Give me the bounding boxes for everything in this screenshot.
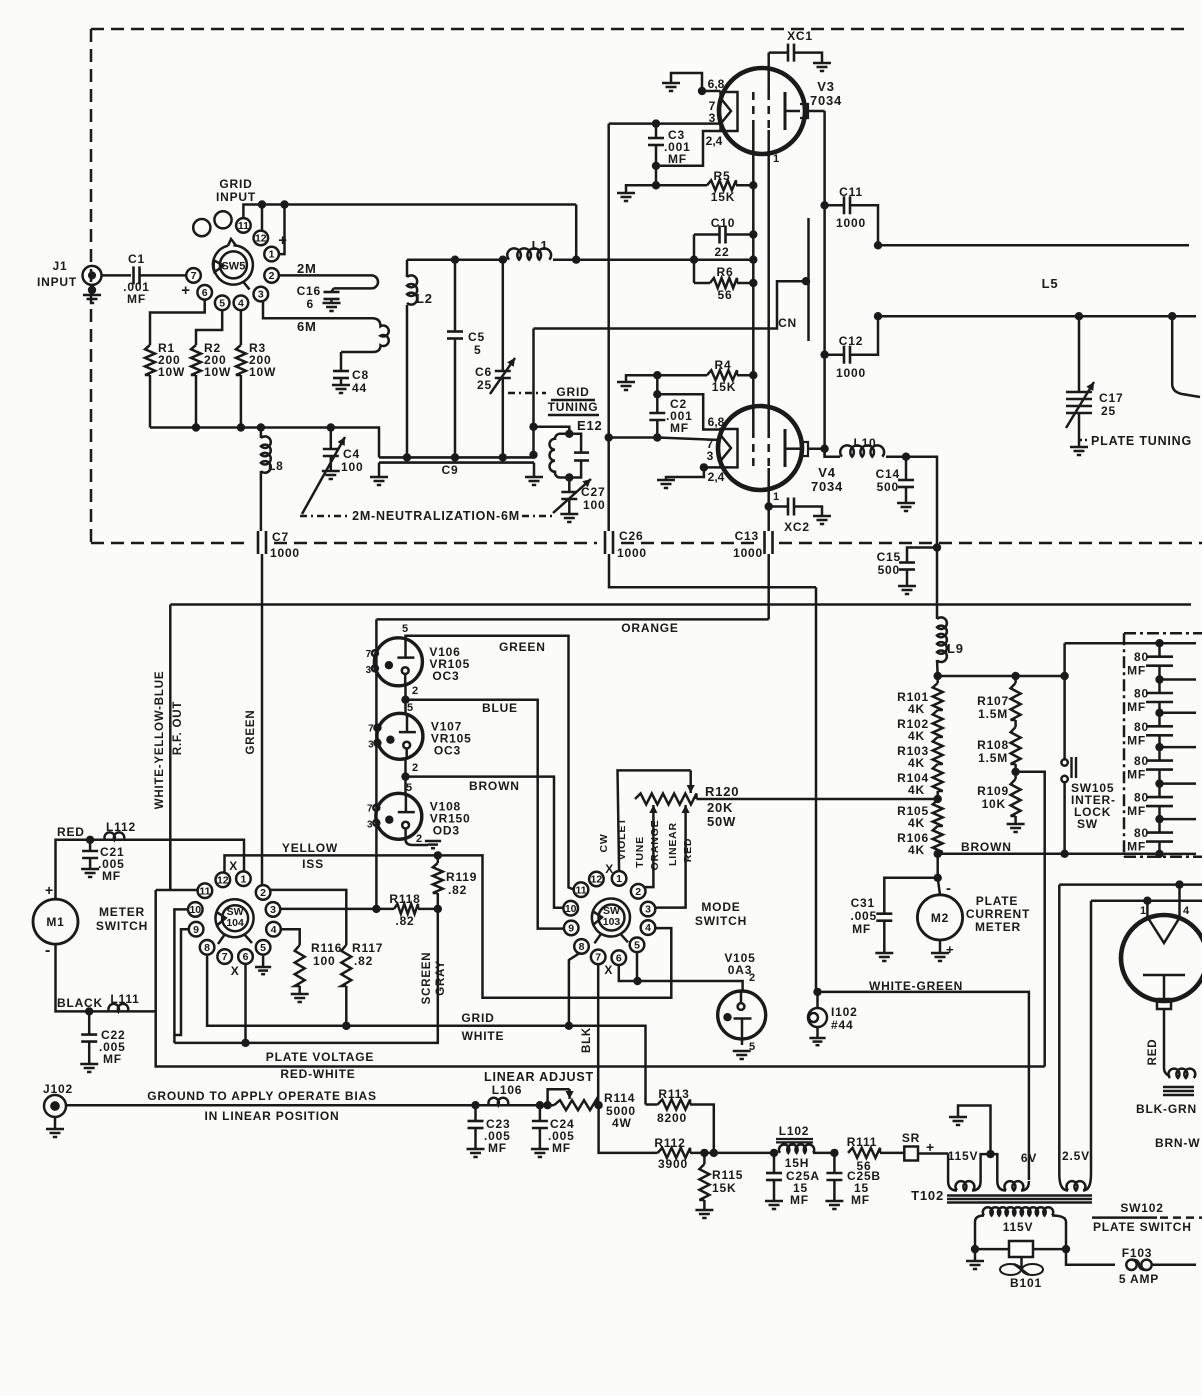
- blower B101: [975, 1248, 1009, 1251]
- wire SW104 pin4 to R116: [280, 929, 299, 945]
- svg-text:5: 5: [402, 623, 408, 635]
- screen bus XC1 to V4: [767, 53, 770, 92]
- wire SCREEN GRAY: [174, 909, 437, 1043]
- wire bottom bus to C9: [150, 428, 379, 458]
- svg-text:SW5: SW5: [221, 260, 245, 272]
- filter capacitor 80 MF #2: [1158, 680, 1161, 694]
- svg-text:GROUND TO APPLY OPERATE BIAS: GROUND TO APPLY OPERATE BIAS: [147, 1089, 377, 1103]
- capacitor C31 .005 MF: [934, 874, 942, 882]
- ground at J1: [88, 286, 96, 294]
- capacitor C9 (split-stator): [379, 456, 534, 459]
- svg-text:MF: MF: [102, 869, 121, 883]
- svg-text:1: 1: [269, 249, 275, 261]
- svg-text:4K: 4K: [908, 816, 925, 830]
- wire L10 to lower section: [906, 457, 937, 619]
- svg-text:BRN-W: BRN-W: [1155, 1136, 1200, 1150]
- rotary switch SW104: [222, 905, 248, 931]
- svg-text:VIOLET: VIOLET: [616, 818, 628, 861]
- svg-text:.82: .82: [448, 883, 467, 897]
- svg-text:X: X: [604, 963, 613, 977]
- resistor R4 15K: [653, 371, 661, 379]
- V4 screen grid (dashed): [767, 430, 770, 468]
- svg-text:WHITE: WHITE: [462, 1029, 505, 1043]
- tube V105 0A3: [718, 991, 766, 1039]
- svg-text:4K: 4K: [908, 702, 925, 716]
- wire SW104 pin11 stub: [156, 889, 199, 892]
- svg-text:X: X: [231, 964, 240, 978]
- SW103 pin 1: [612, 871, 627, 886]
- variable capacitor C27 100: [568, 478, 571, 493]
- svg-text:GREEN: GREEN: [245, 710, 257, 755]
- wire SW103 pins 5,6 to V105: [619, 965, 743, 992]
- svg-text:L9: L9: [947, 641, 964, 656]
- capacitor C15 500: [907, 548, 937, 563]
- neutralizing capacitor CN: [807, 218, 810, 341]
- variable capacitor C4 100: [330, 428, 333, 450]
- SW103 pin 10: [563, 901, 578, 916]
- svg-text:4: 4: [1183, 905, 1190, 917]
- SW103 pin 4: [641, 920, 656, 935]
- transformer T102 primary 115V: [947, 1154, 950, 1182]
- svg-text:ISS: ISS: [302, 857, 324, 871]
- inductor L5 lower line: [878, 315, 1196, 318]
- svg-text:PLATE: PLATE: [976, 894, 1018, 908]
- wire filament line pin 4: [1059, 883, 1202, 886]
- svg-text:V3: V3: [817, 79, 835, 94]
- svg-text:3: 3: [366, 665, 372, 676]
- svg-text:2M-NEUTRALIZATION-6M: 2M-NEUTRALIZATION-6M: [352, 509, 520, 523]
- svg-text:R5: R5: [714, 169, 731, 183]
- svg-text:GRID: GRID: [556, 385, 589, 399]
- wire V106 pin5 GREEN: [406, 636, 575, 890]
- svg-text:2M: 2M: [297, 261, 317, 276]
- svg-text:2: 2: [412, 685, 418, 697]
- svg-text:3: 3: [707, 449, 714, 463]
- svg-text:4K: 4K: [908, 729, 925, 743]
- svg-text:5: 5: [634, 939, 640, 951]
- svg-text:MODE: MODE: [701, 900, 740, 914]
- V3 screen grid (dashed): [767, 92, 770, 130]
- transformer 6V winding: [991, 1154, 998, 1181]
- meter M2 PLATE CURRENT METER: [938, 878, 940, 895]
- svg-text:X: X: [605, 862, 614, 876]
- svg-text:GRID: GRID: [461, 1011, 494, 1025]
- svg-text:V4: V4: [818, 465, 836, 480]
- svg-text:PLATE TUNING: PLATE TUNING: [1091, 434, 1192, 448]
- svg-text:22: 22: [715, 245, 730, 259]
- svg-text:3: 3: [367, 819, 373, 830]
- svg-text:2.5V: 2.5V: [1062, 1149, 1090, 1163]
- svg-text:20K: 20K: [707, 800, 733, 815]
- svg-text:R113: R113: [658, 1087, 689, 1101]
- svg-text:TUNING: TUNING: [548, 400, 599, 414]
- SW104 pin 1: [236, 871, 251, 886]
- svg-text:12: 12: [591, 874, 603, 886]
- wire C1 to SW5 pin7: [140, 274, 187, 277]
- svg-text:100: 100: [583, 498, 605, 512]
- svg-text:C14: C14: [876, 467, 900, 481]
- svg-text:+: +: [45, 882, 54, 898]
- svg-text:MF: MF: [852, 922, 871, 936]
- svg-text:+: +: [278, 232, 288, 249]
- svg-text:1000: 1000: [836, 216, 866, 230]
- svg-text:7: 7: [366, 649, 372, 660]
- V3 grid bus down: [752, 128, 755, 430]
- svg-text:MF: MF: [1127, 733, 1146, 747]
- blower ground: [971, 1245, 979, 1253]
- wire SW104 pin10 down: [174, 909, 188, 1043]
- screen bus to XC2 and C13: [767, 468, 770, 531]
- capacitor C5 5: [454, 260, 457, 332]
- svg-text:M2: M2: [931, 911, 949, 925]
- svg-text:6: 6: [243, 951, 249, 963]
- svg-text:F103: F103: [1122, 1246, 1153, 1260]
- svg-text:MF: MF: [1127, 664, 1146, 678]
- plate bus V3-V4: [823, 111, 826, 457]
- resistor R109 10K: [1011, 779, 1021, 816]
- enclosure dashed border top: [91, 28, 1190, 31]
- capacitor C21 .005 MF: [89, 840, 92, 851]
- wire BLUE: [406, 700, 565, 929]
- wire SW5 pin 1 up: [279, 205, 285, 255]
- svg-text:C4: C4: [343, 447, 360, 461]
- connector J1 INPUT: [83, 266, 102, 285]
- resistor R3 200 10W: [236, 345, 246, 375]
- svg-text:104: 104: [226, 917, 244, 929]
- R4 ground: [626, 375, 657, 381]
- wire BROWN: [938, 853, 1160, 856]
- svg-text:PLATE SWITCH: PLATE SWITCH: [1093, 1220, 1192, 1234]
- SW103 pin 6: [612, 950, 627, 965]
- svg-text:7034: 7034: [810, 93, 842, 108]
- filter capacitor 80 MF #6: [1158, 819, 1161, 833]
- svg-text:2,4: 2,4: [706, 134, 723, 148]
- svg-text:SWITCH: SWITCH: [695, 914, 747, 928]
- svg-text:44: 44: [352, 381, 367, 395]
- capacitor C10 22: [726, 233, 753, 236]
- wire SW105 to capacitor bank: [1065, 642, 1159, 645]
- resistor R5 15K: [656, 184, 707, 187]
- C6 arrow: [490, 358, 515, 394]
- svg-text:15H: 15H: [785, 1156, 809, 1170]
- svg-text:C31: C31: [851, 896, 875, 910]
- inductor L1: [503, 258, 507, 261]
- SW5 pin 5: [215, 296, 230, 311]
- svg-text:1000: 1000: [836, 366, 866, 380]
- transformer T102 core: [947, 1194, 1092, 1196]
- SW104 pin 11: [198, 883, 213, 898]
- SW103 pin 11: [574, 882, 589, 897]
- svg-text:6: 6: [307, 297, 314, 311]
- SW5 unused contacts: [214, 211, 231, 228]
- coil 6M: [341, 318, 389, 352]
- svg-text:C9: C9: [442, 463, 459, 477]
- variable capacitor C6 25: [502, 260, 505, 371]
- svg-text:15K: 15K: [712, 380, 736, 394]
- svg-text:L112: L112: [106, 820, 136, 834]
- SW104 pin 9: [189, 922, 204, 937]
- fuse F103 5 AMP: [1066, 1249, 1115, 1265]
- feedthrough capacitor C13 1000: [763, 531, 766, 554]
- R120 tap LINEAR RED to SW103 pin3: [684, 805, 687, 900]
- svg-text:1.5M: 1.5M: [978, 751, 1008, 765]
- svg-text:R115: R115: [712, 1168, 743, 1182]
- transformer 2.5V winding: [1058, 885, 1061, 1174]
- svg-text:1: 1: [773, 491, 779, 503]
- blower winding 115V: [975, 1216, 984, 1223]
- SW5 pin 4: [234, 296, 249, 311]
- svg-text:2: 2: [749, 972, 755, 984]
- wire PLATE VOLTAGE RED-WHITE: [156, 890, 1045, 1067]
- resistor R118 .82: [281, 908, 395, 911]
- svg-text:6: 6: [202, 287, 208, 299]
- resistor R115 15K: [703, 1153, 706, 1164]
- wire SW5 pin 6 to R1: [150, 299, 205, 345]
- R120 wiper CW VIOLET to SW103 pin1: [618, 770, 691, 871]
- resistor R6 56: [694, 282, 710, 285]
- svg-text:2,4: 2,4: [708, 470, 725, 484]
- svg-text:7034: 7034: [811, 479, 843, 494]
- svg-text:GRAY: GRAY: [435, 960, 447, 995]
- svg-text:METER: METER: [99, 905, 145, 919]
- wire GRID WHITE: [207, 954, 645, 1104]
- svg-text:BLK-GRN: BLK-GRN: [1136, 1102, 1197, 1116]
- svg-text:C27: C27: [581, 485, 605, 499]
- svg-text:115V: 115V: [1003, 1220, 1034, 1234]
- wire filament line pin 1: [1091, 899, 1202, 902]
- svg-text:7: 7: [367, 803, 373, 814]
- svg-text:L102: L102: [779, 1124, 810, 1138]
- inductor L5 upper line: [878, 244, 1189, 247]
- svg-text:#44: #44: [831, 1018, 853, 1032]
- svg-text:CN: CN: [778, 316, 797, 330]
- V3 plate: [784, 92, 787, 130]
- inductor L9: [937, 617, 947, 662]
- wire WHITE-YELLOW-BLUE R.F.OUT bus: [170, 603, 1191, 606]
- svg-text:1000: 1000: [617, 546, 647, 560]
- C27 arrow: [553, 479, 591, 513]
- capacitor XC2: [769, 505, 788, 508]
- cathode bus down: [607, 124, 610, 531]
- svg-text:+: +: [181, 282, 191, 299]
- svg-text:R117: R117: [352, 941, 383, 955]
- svg-text:WHITE-YELLOW-BLUE: WHITE-YELLOW-BLUE: [154, 671, 166, 810]
- meter M1: [33, 899, 78, 944]
- svg-text:R111: R111: [847, 1135, 878, 1149]
- resistor R112 3900: [658, 1148, 691, 1158]
- svg-text:C5: C5: [468, 330, 485, 344]
- rotary switch SW103 MODE SWITCH: [599, 905, 625, 931]
- svg-text:OC3: OC3: [432, 669, 459, 683]
- tube V3 7034: [719, 68, 805, 154]
- SW104 pin 3: [266, 902, 281, 917]
- svg-text:.82: .82: [354, 954, 373, 968]
- SW104 pin 4: [266, 922, 281, 937]
- svg-text:L5: L5: [1042, 276, 1059, 291]
- svg-text:RED: RED: [57, 825, 85, 839]
- primary ground: [958, 1106, 991, 1155]
- svg-text:L8: L8: [268, 459, 284, 473]
- svg-text:4: 4: [238, 297, 244, 309]
- svg-text:.82: .82: [395, 914, 414, 928]
- svg-text:METER: METER: [975, 920, 1021, 934]
- svg-text:R120: R120: [705, 784, 739, 799]
- svg-text:1: 1: [616, 873, 622, 885]
- svg-text:2: 2: [635, 886, 641, 898]
- svg-text:4: 4: [645, 922, 651, 934]
- svg-text:B101: B101: [1010, 1276, 1042, 1290]
- capacitor bank node stubs: [1160, 642, 1197, 645]
- resistor R119 .82: [437, 855, 440, 863]
- wire YELLOW ISS: [225, 855, 672, 997]
- svg-text:INPUT: INPUT: [37, 275, 77, 289]
- svg-text:1000: 1000: [270, 546, 300, 560]
- svg-text:3: 3: [258, 289, 264, 301]
- svg-text:6,8: 6,8: [708, 77, 725, 91]
- svg-text:500: 500: [877, 480, 899, 494]
- svg-text:12: 12: [255, 233, 267, 245]
- C17 arrow: [1066, 382, 1094, 428]
- svg-text:4K: 4K: [908, 756, 925, 770]
- SW5 pin 7: [186, 268, 201, 283]
- svg-text:12: 12: [217, 874, 229, 886]
- svg-text:9: 9: [568, 923, 574, 935]
- svg-text:SWITCH: SWITCH: [96, 919, 148, 933]
- svg-text:IN LINEAR POSITION: IN LINEAR POSITION: [204, 1109, 339, 1123]
- tube V108 VR150 OD3: [376, 793, 422, 839]
- SW103 pin 8: [574, 939, 589, 954]
- resistor R1 200 10W: [145, 345, 155, 375]
- svg-text:R107: R107: [977, 694, 1009, 708]
- R120 tap TUNE ORANGE to SW103 pin2: [652, 805, 655, 880]
- SW104 pin5 ground: [262, 954, 265, 966]
- SW103 pin 7: [591, 950, 606, 965]
- capacitor C24 .005 MF: [536, 1101, 544, 1109]
- svg-text:R119: R119: [446, 870, 477, 884]
- wire ORANGE: [376, 618, 768, 621]
- svg-text:50W: 50W: [707, 814, 736, 829]
- svg-text:LINEAR ADJUST: LINEAR ADJUST: [484, 1070, 594, 1084]
- svg-text:.005: .005: [850, 909, 877, 923]
- svg-text:80: 80: [1134, 650, 1149, 664]
- capacitor C25A 15 MF: [770, 1149, 778, 1157]
- resistors R101-R106 4K chain: [936, 676, 939, 683]
- resistor R108 1.5M: [1011, 727, 1021, 764]
- bus x=816 down to I102: [815, 587, 818, 992]
- svg-text:M1: M1: [46, 915, 64, 929]
- rheostat R114 5000 4W: [554, 1100, 596, 1110]
- svg-text:L106: L106: [492, 1083, 523, 1097]
- wire SW104 pin2 to R117: [270, 890, 346, 945]
- svg-text:XC2: XC2: [784, 520, 810, 534]
- svg-text:2: 2: [416, 833, 422, 845]
- svg-text:R6: R6: [717, 265, 734, 279]
- capacitor C16 6: [332, 288, 334, 292]
- resistor R111 56: [848, 1148, 880, 1158]
- SW104 pin 5: [256, 940, 271, 955]
- svg-text:15K: 15K: [711, 190, 735, 204]
- svg-text:R118: R118: [389, 892, 420, 906]
- inductor L111: [108, 1004, 128, 1011]
- wire RED from M1: [56, 840, 245, 899]
- tube V106 VR105 OC3: [374, 638, 422, 686]
- svg-text:OD3: OD3: [433, 823, 460, 837]
- svg-text:R112: R112: [654, 1136, 685, 1150]
- svg-text:E12: E12: [577, 418, 603, 433]
- svg-text:5: 5: [407, 702, 413, 714]
- svg-text:I102: I102: [831, 1005, 858, 1019]
- svg-text:4: 4: [271, 924, 277, 936]
- svg-text:MF: MF: [127, 292, 146, 306]
- SW5 pin 1: [264, 247, 279, 262]
- svg-text:5 AMP: 5 AMP: [1119, 1272, 1159, 1286]
- capacitor C3 .001 MF: [655, 124, 658, 138]
- filter capacitor 80 MF #4: [1158, 747, 1161, 761]
- SW5 pin 6: [197, 285, 212, 300]
- svg-text:1000: 1000: [733, 546, 763, 560]
- svg-text:115V: 115V: [948, 1149, 979, 1163]
- svg-text:C8: C8: [352, 368, 369, 382]
- svg-text:SW102: SW102: [1120, 1201, 1163, 1215]
- svg-text:INPUT: INPUT: [216, 190, 256, 204]
- filament transformer winding: [1164, 1068, 1170, 1076]
- feedthrough capacitor C7 1000: [257, 531, 260, 554]
- resistor R2 200 10W: [191, 345, 201, 375]
- SW103 pin 2: [631, 884, 646, 899]
- svg-text:CW: CW: [598, 833, 610, 852]
- svg-text:C17: C17: [1099, 391, 1123, 405]
- svg-text:C10: C10: [711, 216, 735, 230]
- svg-text:4K: 4K: [908, 843, 925, 857]
- SW104 pin 7: [217, 949, 232, 964]
- svg-text:100: 100: [313, 954, 335, 968]
- svg-text:MF: MF: [488, 1141, 507, 1155]
- V4 plate: [784, 429, 787, 467]
- connector J102: [44, 1095, 66, 1117]
- svg-text:5: 5: [474, 343, 481, 357]
- V3 cathode: [721, 92, 738, 131]
- svg-text:10W: 10W: [249, 365, 276, 379]
- svg-text:1: 1: [240, 873, 246, 885]
- svg-text:7: 7: [368, 723, 374, 734]
- svg-text:C6: C6: [475, 365, 492, 379]
- capacitor bank dash-dot box: [1124, 632, 1202, 635]
- V3 grid 1 (dashed): [752, 92, 755, 128]
- svg-text:MF: MF: [103, 1052, 122, 1066]
- wire GROUND TO APPLY OPERATE BIAS: [66, 1104, 554, 1107]
- svg-text:MF: MF: [1127, 700, 1146, 714]
- svg-text:7: 7: [595, 952, 601, 964]
- svg-text:10W: 10W: [204, 365, 231, 379]
- wire L5 to right edge: [1172, 316, 1200, 397]
- capacitor C8 44: [340, 352, 343, 371]
- svg-text:BROWN: BROWN: [469, 779, 520, 793]
- svg-text:MF: MF: [790, 1193, 809, 1207]
- wire J1 to C1: [102, 274, 132, 277]
- svg-text:500: 500: [878, 563, 900, 577]
- svg-text:10W: 10W: [158, 365, 185, 379]
- svg-text:C7: C7: [272, 530, 289, 544]
- wire SW104 pin9 stub: [174, 929, 189, 1035]
- svg-text:5: 5: [406, 782, 412, 794]
- svg-text:C16: C16: [297, 284, 321, 298]
- wire SW5 pin 5 to R2: [196, 310, 222, 345]
- inductor L10: [825, 449, 840, 457]
- inductor L8: [261, 436, 271, 472]
- interlock switch SW105: [1063, 643, 1066, 759]
- svg-text:C12: C12: [839, 334, 863, 348]
- SW104 pin 2: [256, 885, 271, 900]
